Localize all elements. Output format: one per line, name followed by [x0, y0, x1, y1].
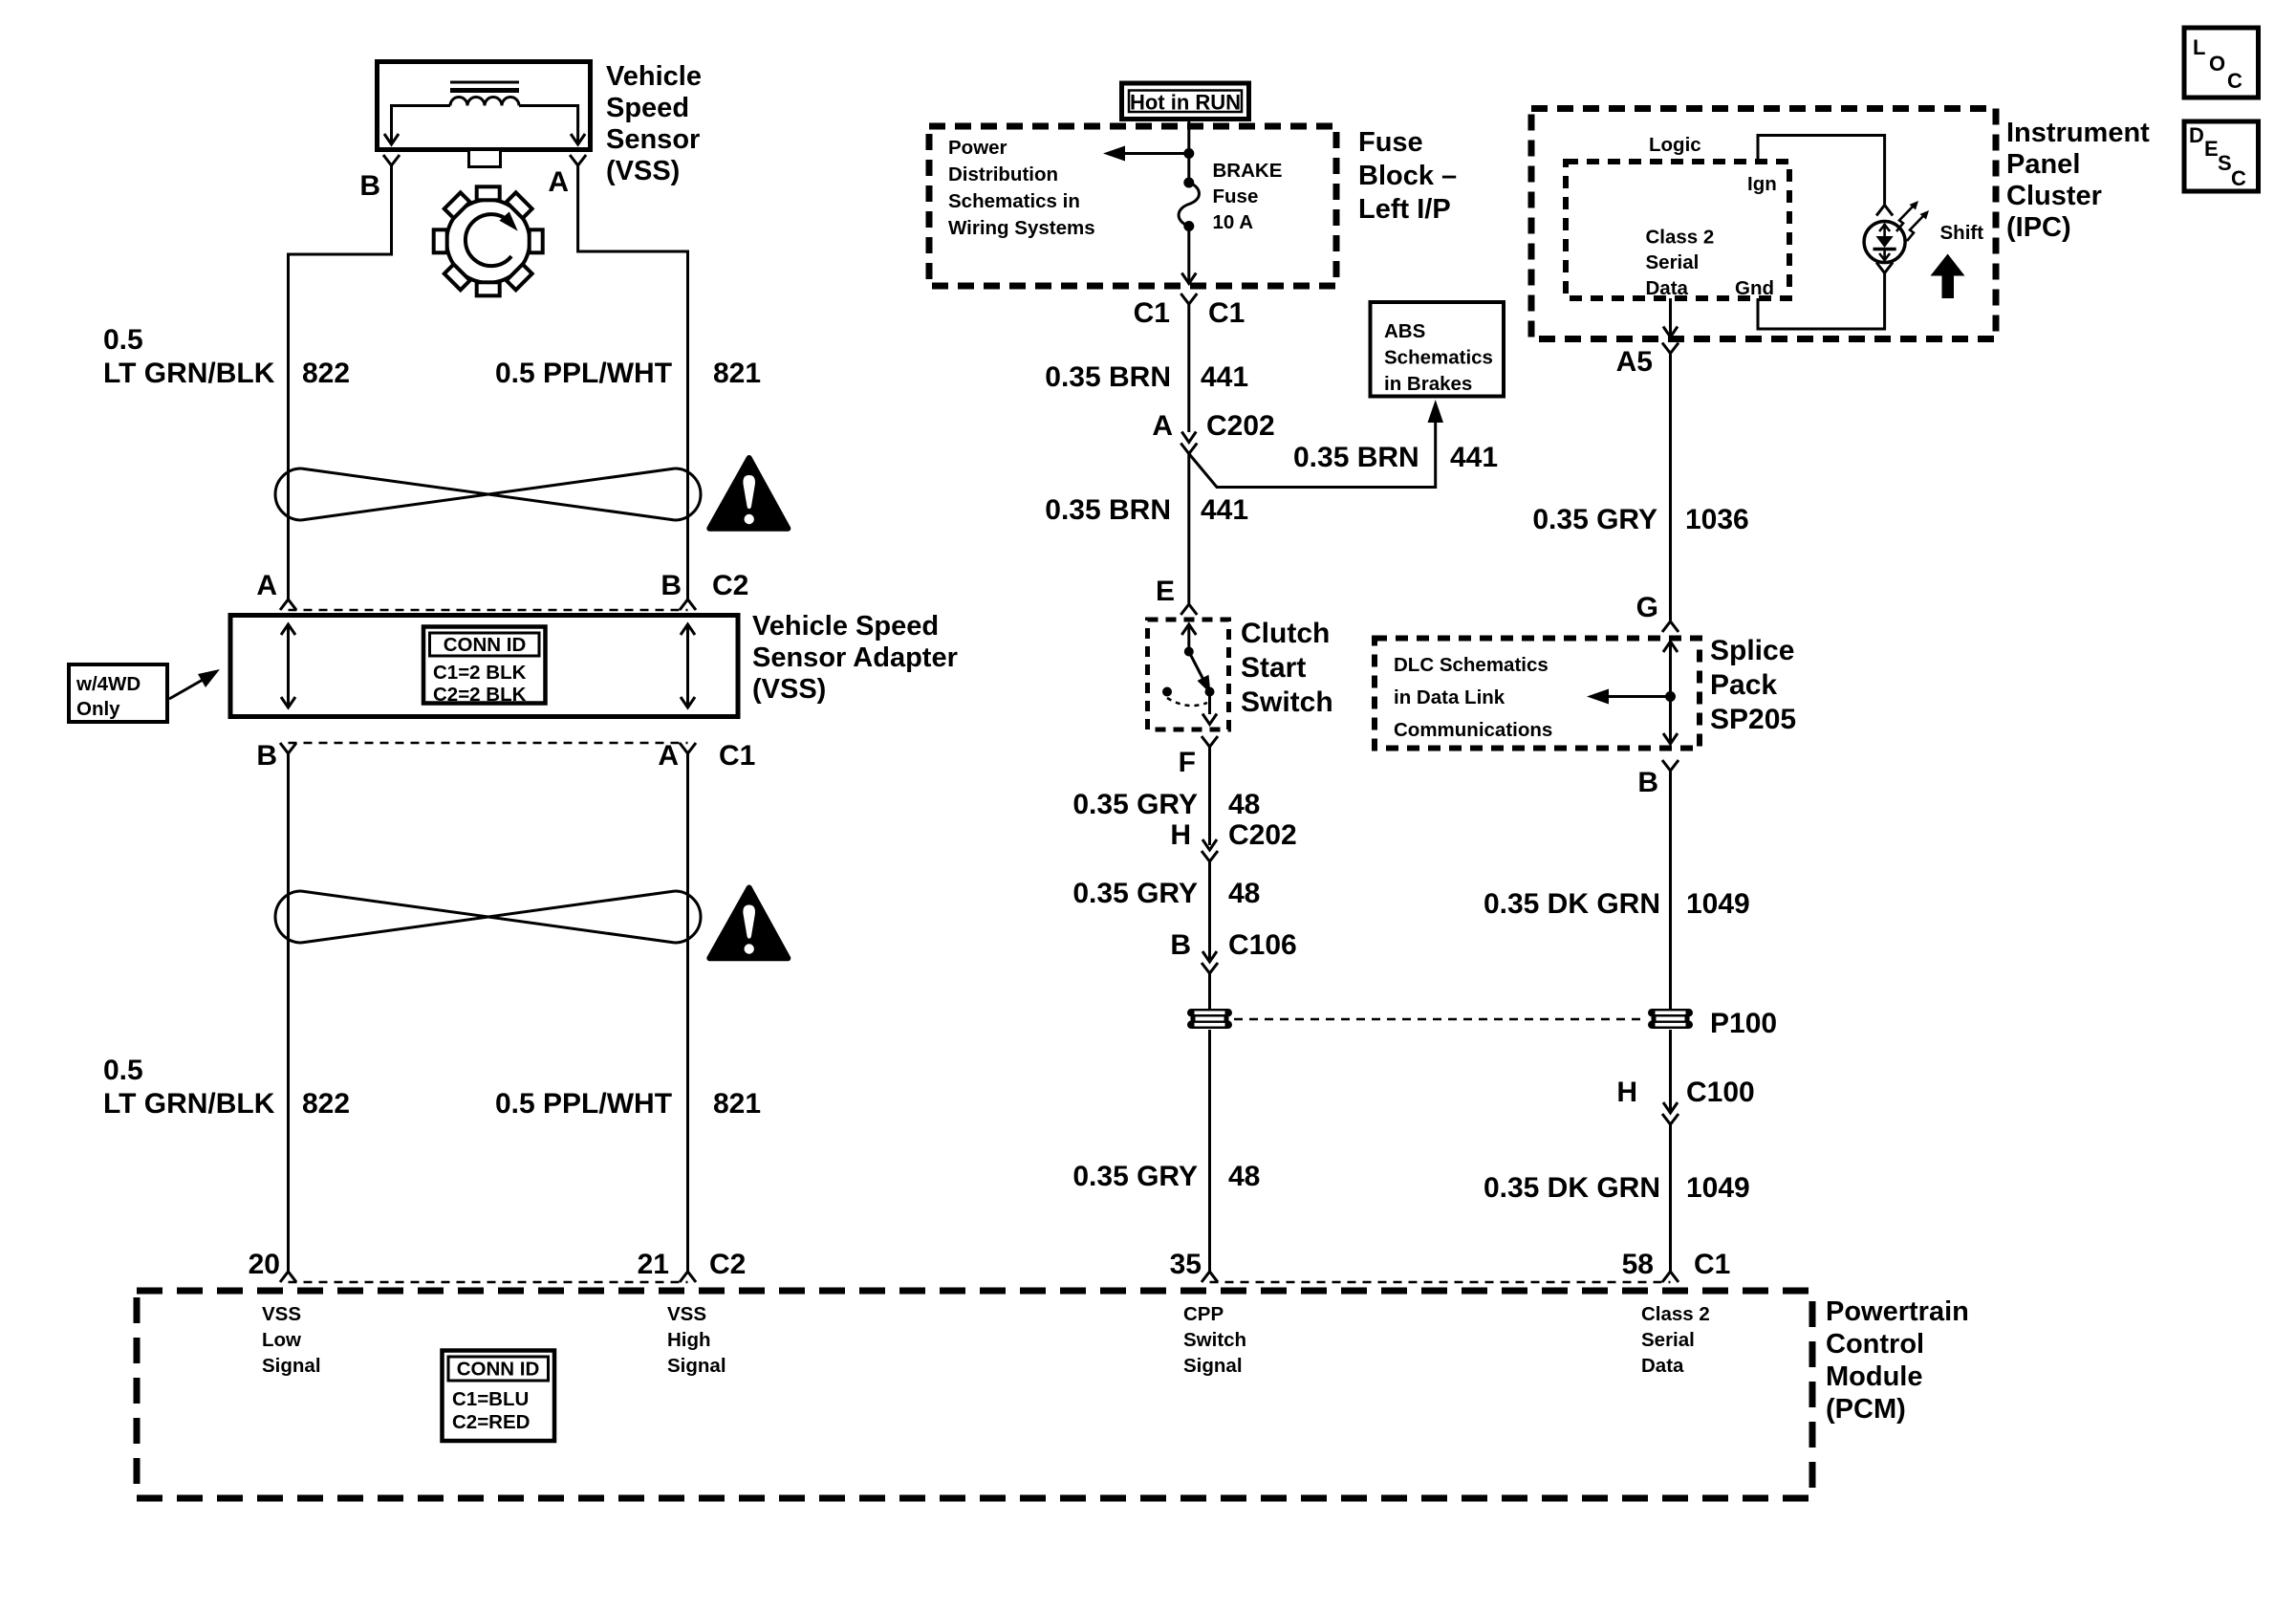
svg-text:58: 58 — [1622, 1249, 1654, 1280]
svg-text:A5: A5 — [1616, 346, 1653, 378]
svg-text:821: 821 — [713, 1088, 761, 1120]
wire LED to Gnd — [1758, 273, 1885, 330]
wire 48 run to C106 — [1208, 861, 1211, 962]
pass-through grommet left (P100) — [1187, 1009, 1232, 1029]
powertrain control module dashed box — [137, 1291, 1812, 1498]
svg-text:Fuse: Fuse — [1213, 185, 1259, 207]
wire 441 to clutch switch — [1187, 454, 1190, 604]
wire 48 to pass-through grommet — [1208, 973, 1211, 1009]
wire label 0.35 GRY 48 (second) — [1072, 878, 1260, 909]
svg-text:Clutch: Clutch — [1241, 618, 1330, 649]
svg-text:VSS: VSS — [262, 1303, 301, 1325]
wire class 2 serial data out of IPC — [1663, 298, 1678, 337]
svg-text:C1=2 BLK: C1=2 BLK — [433, 662, 527, 684]
vehicle speed sensor adapter box — [230, 616, 738, 717]
svg-text:B: B — [359, 170, 380, 202]
connector C1 chevron below fuse block — [1180, 294, 1197, 304]
PCM pin 21 chevron — [680, 1272, 696, 1282]
wire label 0.35 GRY 1036 — [1532, 504, 1748, 535]
PCM pin function CPP Switch Signal — [1183, 1303, 1246, 1377]
svg-text:High: High — [667, 1329, 711, 1351]
PCM pin 58 chevron — [1662, 1272, 1679, 1282]
svg-text:(IPC): (IPC) — [2006, 212, 2071, 243]
svg-text:0.35 GRY: 0.35 GRY — [1072, 789, 1198, 820]
splice pack SP205 vertical bus — [1663, 642, 1678, 744]
wire label 0.35 BRN 441 (lower) — [1045, 494, 1248, 526]
svg-text:441: 441 — [1201, 494, 1248, 526]
wire label 0.35 BRN 441 (upper) — [1045, 361, 1248, 393]
svg-text:Panel: Panel — [2006, 149, 2080, 180]
svg-text:BRAKE: BRAKE — [1213, 160, 1283, 182]
svg-text:Vehicle Speed: Vehicle Speed — [752, 611, 939, 642]
svg-text:LT GRN/BLK: LT GRN/BLK — [103, 1088, 275, 1120]
vehicle speed sensor VSS box — [378, 62, 591, 150]
svg-text:Module: Module — [1826, 1361, 1923, 1392]
svg-text:10 A: 10 A — [1213, 211, 1254, 233]
note text Power Distribution Schematics in Wiring Systems — [948, 137, 1095, 239]
component name Vehicle Speed Sensor Adapter (VSS) — [752, 611, 958, 705]
svg-text:CPP: CPP — [1183, 1303, 1224, 1325]
switch contact dot right — [1205, 687, 1215, 697]
label Class 2 Serial Data — [1646, 227, 1715, 300]
svg-text:0.35 GRY: 0.35 GRY — [1072, 878, 1198, 909]
dashed pass-through P100 tie line — [1234, 1018, 1646, 1021]
svg-text:Distribution: Distribution — [948, 163, 1058, 185]
svg-text:A: A — [658, 740, 679, 772]
svg-text:H: H — [1170, 819, 1191, 851]
svg-text:441: 441 — [1450, 442, 1498, 473]
branch wire label 0.35 BRN 441 — [1293, 442, 1498, 473]
svg-text:48: 48 — [1228, 1161, 1260, 1192]
svg-text:Signal: Signal — [1183, 1355, 1243, 1377]
LED light emission arrows — [1896, 201, 1929, 241]
svg-text:Shift: Shift — [1940, 222, 1984, 244]
svg-text:Hot in RUN: Hot in RUN — [1130, 91, 1241, 115]
svg-text:B: B — [661, 570, 682, 601]
svg-text:0.35 DK GRN: 0.35 DK GRN — [1484, 1172, 1660, 1204]
svg-text:VSS: VSS — [667, 1303, 706, 1325]
pin A connector chevron — [570, 155, 586, 165]
VSS magnetic core lines — [450, 82, 519, 91]
CONN ID table (PCM) — [443, 1351, 555, 1442]
switch arm with arrowhead — [1189, 652, 1211, 694]
svg-text:C1: C1 — [1134, 297, 1170, 329]
LOC corner box — [2184, 28, 2259, 98]
svg-text:S: S — [2218, 151, 2232, 175]
svg-text:Data: Data — [1646, 277, 1689, 299]
svg-text:Low: Low — [262, 1329, 301, 1351]
pin E chevron — [1180, 604, 1197, 615]
wire 1049 to C100 — [1669, 1030, 1672, 1113]
svg-text:Class 2: Class 2 — [1641, 1303, 1710, 1325]
svg-text:Start: Start — [1241, 652, 1306, 684]
PCM pin 20 chevron — [280, 1272, 296, 1282]
PCM pin function VSS High Signal — [667, 1303, 726, 1377]
VSS mounting tab — [469, 150, 501, 167]
connector face dashed line C2 — [289, 609, 688, 612]
pin F chevron — [1202, 736, 1218, 747]
svg-text:Instrument: Instrument — [2006, 118, 2150, 148]
component name Fuse Block Left I/P — [1358, 127, 1457, 225]
splice pack pin B chevron — [1662, 760, 1679, 771]
svg-text:Sensor: Sensor — [606, 124, 700, 155]
wire VSS pin B to left run 822 — [289, 165, 392, 599]
svg-text:L: L — [2193, 35, 2205, 59]
clutch start switch dashed box — [1148, 620, 1229, 729]
svg-text:Fuse: Fuse — [1358, 127, 1423, 158]
svg-text:0.5: 0.5 — [103, 1055, 143, 1086]
wire VSS pin A to right run 821 — [578, 165, 688, 599]
svg-text:48: 48 — [1228, 789, 1260, 820]
note text DLC Schematics in Data Link Communications — [1394, 654, 1552, 741]
svg-text:O: O — [2209, 52, 2225, 76]
wire from Hot in RUN into fuse block — [1187, 120, 1190, 184]
svg-text:in Brakes: in Brakes — [1384, 373, 1472, 395]
svg-text:CONN ID: CONN ID — [457, 1359, 540, 1381]
svg-text:0.35 GRY: 0.35 GRY — [1532, 504, 1657, 535]
wire 48 run to C202 — [1208, 747, 1211, 845]
svg-text:Control: Control — [1826, 1329, 1924, 1360]
adapter pass-through arrow right — [681, 624, 695, 708]
svg-text:Powertrain: Powertrain — [1826, 1296, 1969, 1327]
svg-text:0.35 BRN: 0.35 BRN — [1045, 494, 1171, 526]
svg-text:Serial: Serial — [1646, 251, 1700, 273]
wire label 0.35 GRY 48 (first) — [1072, 789, 1260, 820]
svg-text:F: F — [1179, 747, 1196, 778]
svg-text:C202: C202 — [1206, 410, 1275, 442]
svg-text:Cluster: Cluster — [2006, 181, 2102, 211]
svg-text:1049: 1049 — [1686, 888, 1750, 920]
svg-text:(PCM): (PCM) — [1826, 1394, 1906, 1425]
fuse block dashed box — [929, 126, 1336, 286]
svg-text:0.35 BRN: 0.35 BRN — [1293, 442, 1419, 473]
svg-text:Signal: Signal — [262, 1355, 321, 1377]
DLC schematics dashed box — [1375, 639, 1700, 749]
wire fuse output with arrow — [1181, 227, 1196, 284]
svg-text:C2=RED: C2=RED — [452, 1411, 530, 1433]
reluctor gear wheel — [434, 186, 543, 295]
svg-text:Schematics: Schematics — [1384, 347, 1493, 369]
component name Instrument Panel Cluster (IPC) — [2006, 118, 2150, 243]
svg-text:0.5 PPL/WHT: 0.5 PPL/WHT — [495, 1088, 672, 1120]
svg-text:C2: C2 — [709, 1249, 746, 1280]
svg-text:ABS: ABS — [1384, 320, 1425, 342]
svg-text:Switch: Switch — [1241, 686, 1333, 718]
svg-text:821: 821 — [713, 358, 761, 389]
svg-text:DLC Schematics: DLC Schematics — [1394, 654, 1549, 676]
svg-text:0.35 GRY: 0.35 GRY — [1072, 1161, 1198, 1192]
svg-text:Wiring Systems: Wiring Systems — [948, 217, 1095, 239]
svg-text:Class 2: Class 2 — [1646, 227, 1715, 249]
svg-text:Signal: Signal — [667, 1355, 726, 1377]
svg-text:E: E — [1156, 576, 1175, 607]
svg-text:20: 20 — [249, 1249, 280, 1280]
in-line connector C202 double chevron — [1180, 432, 1197, 454]
svg-text:48: 48 — [1228, 878, 1260, 909]
svg-text:w/4WD: w/4WD — [76, 673, 141, 695]
splice node dot — [1665, 691, 1676, 702]
svg-text:C1: C1 — [719, 740, 755, 772]
svg-text:C106: C106 — [1228, 929, 1297, 961]
svg-text:Data: Data — [1641, 1355, 1684, 1377]
svg-text:A: A — [256, 570, 277, 601]
svg-text:Sensor Adapter: Sensor Adapter — [752, 642, 958, 673]
in-line connector C106 double chevron — [1202, 951, 1218, 973]
fuse label BRAKE Fuse 10 A — [1213, 160, 1283, 233]
svg-text:822: 822 — [302, 1088, 350, 1120]
wire label 0.35 GRY 48 (third) — [1072, 1161, 1260, 1192]
branch wire to ABS with arrow — [1189, 400, 1443, 488]
svg-text:C: C — [2227, 69, 2242, 93]
svg-text:21: 21 — [638, 1249, 669, 1280]
connector C1 chevron right (adapter bottom) — [680, 743, 696, 753]
ABS Schematics in Brakes box — [1371, 302, 1505, 397]
warning triangle (lower) — [709, 888, 788, 959]
svg-text:Left I/P: Left I/P — [1358, 194, 1451, 225]
svg-text:822: 822 — [302, 358, 350, 389]
wire 821 lower run — [686, 753, 689, 1272]
wire label 0.35 DK GRN 1049 (lower) — [1484, 1172, 1750, 1204]
svg-text:Switch: Switch — [1183, 1329, 1246, 1351]
Hot in RUN box — [1122, 83, 1249, 120]
splice pack pin G chevron — [1662, 621, 1679, 632]
w/4WD Only callout box — [69, 664, 167, 722]
svg-text:0.35 DK GRN: 0.35 DK GRN — [1484, 888, 1660, 920]
svg-text:(VSS): (VSS) — [606, 156, 680, 186]
svg-text:C100: C100 — [1686, 1077, 1755, 1108]
component name Splice Pack SP205 — [1710, 635, 1796, 735]
junction node dot — [1183, 148, 1194, 159]
svg-text:A: A — [548, 166, 569, 198]
PCM pin function VSS Low Signal — [262, 1303, 321, 1377]
svg-text:Gnd: Gnd — [1735, 277, 1774, 299]
VSS pickup coil L — [450, 98, 519, 106]
branch arrow to power distribution — [1103, 146, 1189, 162]
IPC pin A5 chevron — [1662, 343, 1679, 354]
VSS internal lead left with arrow — [384, 106, 450, 145]
IPC outer dashed box — [1531, 109, 1996, 339]
svg-text:CONN ID: CONN ID — [444, 634, 527, 656]
svg-text:Speed: Speed — [606, 93, 689, 123]
svg-text:E: E — [2204, 137, 2219, 161]
pin label A and connector C202 — [1152, 410, 1274, 442]
svg-text:0.35 BRN: 0.35 BRN — [1045, 361, 1171, 393]
svg-text:Communications: Communications — [1394, 719, 1552, 741]
shift indicator LED — [1864, 222, 1905, 263]
svg-text:Ign: Ign — [1747, 173, 1777, 195]
connector C1 chevron left (adapter bottom) — [280, 743, 296, 753]
svg-text:Splice: Splice — [1710, 635, 1794, 666]
svg-text:Block –: Block – — [1358, 161, 1457, 191]
LED anode chevron — [1876, 206, 1893, 216]
switch pivot dot — [1184, 647, 1194, 657]
svg-text:C1: C1 — [1208, 297, 1245, 329]
component name Clutch Start Switch — [1241, 618, 1333, 718]
PCM pin 35 chevron — [1202, 1272, 1218, 1282]
svg-text:0.5: 0.5 — [103, 324, 143, 356]
pin B connector chevron — [383, 155, 400, 165]
twisted pair symbol (upper) — [275, 468, 701, 520]
svg-text:0.5 PPL/WHT: 0.5 PPL/WHT — [495, 358, 672, 389]
svg-text:C2: C2 — [712, 570, 748, 601]
pin label B and connector C106 — [1170, 929, 1296, 961]
svg-text:1036: 1036 — [1685, 504, 1749, 535]
svg-text:Only: Only — [76, 698, 120, 720]
switch output arrow — [1202, 692, 1217, 725]
svg-text:in Data Link: in Data Link — [1394, 686, 1505, 708]
svg-text:B: B — [1637, 767, 1658, 798]
svg-text:B: B — [1170, 929, 1191, 961]
svg-text:Schematics in: Schematics in — [948, 190, 1080, 212]
component name Vehicle Speed Sensor (VSS) — [606, 61, 702, 186]
svg-text:C2=2 BLK: C2=2 BLK — [433, 684, 527, 706]
switch alternate position dashed arc — [1167, 698, 1207, 706]
connector C2 chevron left (adapter top) — [280, 599, 296, 610]
splice branch arrow to DLC — [1587, 689, 1671, 705]
svg-text:C202: C202 — [1228, 819, 1297, 851]
pass-through grommet right (P100) — [1648, 1009, 1693, 1029]
component name Powertrain Control Module (PCM) — [1826, 1296, 1969, 1425]
svg-text:Power: Power — [948, 137, 1007, 159]
in-line connector C202 double chevron (lower) — [1202, 839, 1218, 861]
wire 1049 run to PCM — [1669, 1124, 1672, 1272]
svg-text:C1=BLU: C1=BLU — [452, 1388, 529, 1410]
wire 1049 run — [1669, 771, 1672, 1009]
connector C2 chevron right (adapter top) — [680, 599, 696, 610]
switch input arrow — [1181, 624, 1196, 652]
adapter pass-through arrow left — [281, 624, 295, 708]
w/4WD callout arrow — [169, 669, 220, 699]
svg-text:Logic: Logic — [1649, 134, 1701, 156]
PCM pin function Class 2 Serial Data — [1641, 1303, 1710, 1377]
IPC logic inner dashed box — [1566, 162, 1789, 298]
svg-text:G: G — [1636, 592, 1658, 623]
svg-text:P100: P100 — [1710, 1008, 1777, 1039]
svg-text:Pack: Pack — [1710, 669, 1777, 701]
wire Ign to LED — [1758, 136, 1885, 205]
svg-text:1049: 1049 — [1686, 1172, 1750, 1204]
wire size label 0.5 LT GRN/BLK (lower) — [103, 1055, 275, 1120]
pin label H and connector C202 — [1170, 819, 1296, 851]
PCM connector face dashed line C1 — [1210, 1281, 1671, 1284]
twisted pair symbol (lower) — [275, 891, 701, 943]
svg-text:441: 441 — [1201, 361, 1248, 393]
svg-text:(VSS): (VSS) — [752, 674, 826, 705]
svg-text:35: 35 — [1170, 1249, 1202, 1280]
svg-text:C1: C1 — [1694, 1249, 1730, 1280]
wire 822 lower run — [287, 753, 290, 1272]
connector labels C1 C1 — [1134, 297, 1245, 329]
svg-text:LT GRN/BLK: LT GRN/BLK — [103, 358, 275, 389]
fuse BRAKE 10A symbol — [1179, 178, 1199, 232]
wire 1036 run — [1669, 354, 1672, 621]
svg-text:SP205: SP205 — [1710, 704, 1796, 735]
warning triangle (upper) — [709, 458, 788, 529]
wire size label 0.5 LT GRN/BLK (upper) — [103, 324, 275, 389]
svg-text:Serial: Serial — [1641, 1329, 1695, 1351]
CONN ID table (adapter) — [423, 627, 546, 707]
svg-text:B: B — [256, 740, 277, 772]
wire label 0.35 DK GRN 1049 (upper) — [1484, 888, 1750, 920]
in-line connector C100 double chevron — [1662, 1102, 1679, 1124]
LED cathode chevron — [1876, 263, 1893, 273]
wire 441 upper run — [1187, 304, 1190, 432]
shift up arrow solid — [1931, 254, 1965, 299]
svg-text:C: C — [2231, 166, 2246, 190]
DESC corner box — [2184, 121, 2259, 191]
PCM connector face dashed line C2 — [289, 1281, 688, 1284]
connector face dashed line C1 — [289, 742, 688, 745]
svg-text:H: H — [1616, 1077, 1637, 1108]
svg-text:D: D — [2189, 123, 2204, 147]
VSS internal lead right with arrow — [519, 106, 585, 145]
pin label H and connector C100 — [1616, 1077, 1754, 1108]
switch contact dot left — [1162, 687, 1172, 697]
wire 48 run to PCM — [1208, 1030, 1211, 1272]
svg-text:Vehicle: Vehicle — [606, 61, 702, 92]
svg-text:A: A — [1152, 410, 1173, 442]
